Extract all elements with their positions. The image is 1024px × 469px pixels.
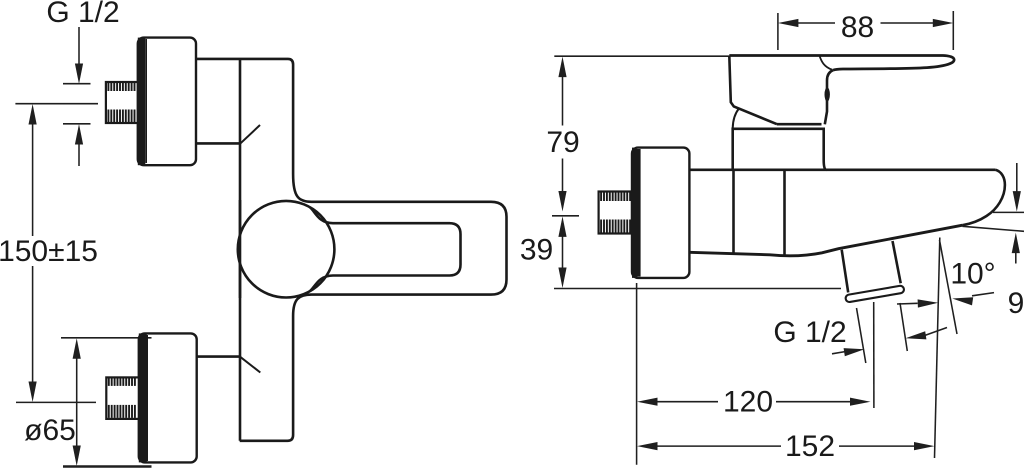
dimension o65 arrow up (73, 338, 81, 359)
10deg right arrow (952, 297, 973, 305)
top block bottom edge (197, 142, 240, 145)
wall reference line (554, 288, 841, 290)
extension line escutcheon bottom (63, 465, 152, 468)
centerline top connection (15, 103, 98, 105)
cartridge collar (733, 129, 827, 170)
svg-text:9: 9 (1008, 287, 1024, 320)
10deg left arrow (897, 302, 918, 305)
G 1/2 leader arrow left (832, 352, 845, 354)
body feature line left (732, 170, 735, 255)
outlet extension line right (900, 303, 907, 351)
dimension 79 arrow up (558, 57, 566, 78)
dimension 39 arrow down (558, 268, 566, 289)
bottom escutcheon flange plate (139, 333, 147, 462)
dimension 39 arrow up (558, 216, 566, 237)
handle lever outline front (310, 207, 461, 291)
outlet axis extension line (873, 302, 875, 408)
svg-text:ø65: ø65 (24, 414, 76, 447)
spout outline front view (293, 174, 506, 316)
outlet tube right edge (893, 241, 901, 283)
extension tick, thread top edge (63, 83, 91, 85)
handle top edge and blade (729, 56, 954, 71)
body left edge vertical (239, 59, 242, 441)
leader arrow down to top thread OD (78, 27, 80, 65)
spout beak outline (963, 170, 1005, 225)
outlet extension line left (857, 308, 866, 363)
body underside (689, 225, 962, 256)
dimension 88 right arrow (881, 22, 934, 24)
top escutcheon flange plate (138, 38, 146, 166)
chamfer tick bottom block (240, 356, 261, 372)
handle base circle (238, 201, 335, 298)
side escutcheon body (632, 148, 689, 278)
dimension 152 left arrow (637, 442, 658, 450)
temperature indicator dot (825, 88, 830, 102)
svg-text:10°: 10° (950, 258, 995, 291)
bottom block top edge (197, 355, 240, 358)
dimension o65 arrow down (73, 446, 81, 467)
top escutcheon plate edge line (145, 39, 147, 163)
body top edge (197, 59, 294, 174)
body feature line right (783, 170, 786, 256)
handle dome bottom edge (777, 123, 822, 126)
dimension 79 arrow down (562, 159, 564, 192)
body top edge side view (689, 169, 995, 172)
dimension 9 arrow down (1016, 163, 1018, 192)
svg-text:39: 39 (520, 234, 553, 267)
centerline bottom connection (16, 401, 96, 403)
bottom escutcheon plate edge line (146, 335, 148, 461)
svg-text:120: 120 (723, 386, 773, 419)
bottom escutcheon body (139, 333, 197, 462)
bottom inlet threaded nipple (106, 377, 139, 419)
extension line handle top (554, 55, 729, 57)
svg-text:G 1/2: G 1/2 (773, 316, 846, 349)
dimension 152 right arrow (839, 445, 915, 447)
dimension o65 line (76, 358, 78, 446)
extension line handle tip (952, 11, 954, 50)
dimension 88 left arrow (778, 19, 799, 27)
top inlet threaded nipple (106, 82, 139, 123)
top escutcheon body (138, 38, 196, 166)
svg-text:G 1/2: G 1/2 (46, 0, 119, 29)
body left edge through circle (239, 200, 242, 298)
cartridge collar fillet (733, 109, 739, 129)
spout axis line 10deg (940, 240, 958, 334)
handle dome left edge (729, 56, 777, 125)
extension tick, thread bottom edge (63, 123, 91, 125)
dimension 9 arrow up (1012, 233, 1020, 254)
handle neck front edge (825, 70, 833, 124)
G 1/2 leader arrow right (906, 331, 927, 339)
svg-text:150±15: 150±15 (0, 235, 98, 268)
dimension 150±15 arrow down (32, 266, 34, 382)
side escutcheon flange plate (632, 148, 640, 278)
dimension 150±15 arrow up (29, 104, 37, 125)
svg-text:88: 88 (841, 11, 874, 44)
side escutcheon plate edge line (639, 149, 641, 277)
dimension 120 right arrow (776, 401, 851, 403)
extension line spout underside (963, 226, 1024, 231)
chamfer tick top block (240, 125, 260, 144)
svg-text:152: 152 (785, 430, 835, 463)
vertical reference line 10deg (935, 238, 940, 459)
extension line escutcheon top (61, 337, 152, 339)
extension line handle pivot (777, 13, 779, 50)
centerline tick side inlet (552, 215, 579, 217)
side inlet threaded nipple (599, 192, 632, 234)
outlet flange (845, 285, 904, 302)
extension line spout tip upper (993, 211, 1024, 213)
arrow up to thread bottom edge (75, 124, 83, 145)
dimension 120 left arrow (637, 398, 658, 406)
wall extension line (636, 283, 638, 465)
svg-text:79: 79 (546, 126, 579, 159)
outlet tube left edge (842, 250, 849, 293)
handle blade/dome separation (820, 56, 833, 70)
body right edge lower (240, 316, 293, 441)
